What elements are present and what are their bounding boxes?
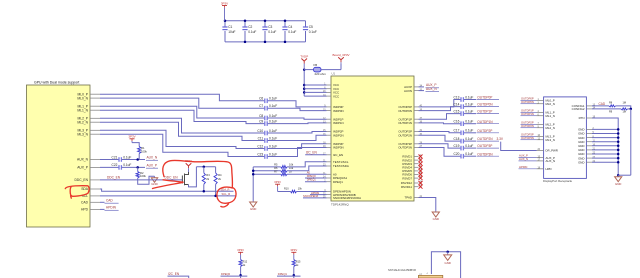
svg-text:C20: C20	[454, 152, 460, 156]
svg-text:DPEQ0: DPEQ0	[307, 174, 317, 178]
svg-text:C14: C14	[454, 102, 460, 106]
svg-text:SDA: SDA	[81, 187, 89, 191]
svg-text:TDP142RNQ: TDP142RNQ	[331, 203, 349, 207]
svg-text:0.1uF: 0.1uF	[269, 114, 277, 118]
svg-text:R3: R3	[206, 173, 210, 177]
svg-text:0.1uF: 0.1uF	[465, 95, 473, 99]
svg-text:OUTDP2N: OUTDP2N	[521, 124, 534, 128]
svg-text:OUTDP2N: OUTDP2N	[398, 133, 412, 137]
svg-text:RTN: RTN	[579, 116, 585, 120]
svg-text:0.1uF: 0.1uF	[465, 152, 473, 156]
svg-text:C7: C7	[259, 104, 263, 108]
svg-text:C23: C23	[257, 152, 263, 156]
svg-text:CONFIG2: CONFIG2	[572, 107, 585, 111]
svg-text:HPD: HPD	[546, 167, 552, 171]
svg-text:C22: C22	[112, 163, 118, 167]
svg-text:R5: R5	[274, 162, 278, 166]
svg-text:C11: C11	[258, 136, 264, 140]
svg-text:AUX_N: AUX_N	[546, 159, 556, 163]
svg-text:OUTDP0N: OUTDP0N	[398, 109, 412, 113]
svg-text:CAD: CAD	[106, 198, 113, 202]
svg-text:0.1uF: 0.1uF	[123, 155, 131, 159]
svg-text:TPAD: TPAD	[405, 196, 413, 200]
svg-text:Board_3P3V: Board_3P3V	[332, 53, 349, 57]
svg-text:C6: C6	[259, 97, 263, 101]
svg-text:0.1uF: 0.1uF	[269, 144, 277, 148]
svg-text:C15: C15	[454, 109, 460, 113]
svg-text:3P3V: 3P3V	[290, 248, 297, 252]
svg-text:C1: C1	[228, 25, 232, 29]
svg-text:ML3_N: ML3_N	[546, 138, 555, 142]
svg-text:OUTDP1N: OUTDP1N	[398, 121, 412, 125]
svg-text:0.1uF: 0.1uF	[465, 109, 473, 113]
svg-text:C12: C12	[257, 144, 263, 148]
svg-text:GND: GND	[444, 261, 450, 265]
svg-text:DDC_EN: DDC_EN	[74, 178, 88, 182]
svg-text:OUTDP3N: OUTDP3N	[477, 152, 493, 156]
svg-text:C17: C17	[454, 129, 460, 133]
svg-text:C21: C21	[112, 155, 118, 159]
svg-text:3P3V: 3P3V	[221, 1, 228, 5]
svg-text:ML3_N: ML3_N	[77, 132, 88, 136]
svg-text:RSVD7: RSVD7	[402, 176, 412, 180]
svg-text:C8: C8	[259, 114, 263, 118]
svg-text:3P3V: 3P3V	[274, 180, 281, 184]
svg-text:SNOOPENZ: SNOOPENZ	[303, 194, 318, 198]
svg-text:C19: C19	[454, 144, 460, 148]
svg-text:100k: 100k	[141, 149, 147, 153]
svg-text:0.1uF: 0.1uF	[465, 120, 473, 124]
svg-text:0.1uF: 0.1uF	[269, 152, 277, 156]
svg-text:DDC_EN: DDC_EN	[107, 176, 121, 180]
svg-text:GND: GND	[433, 217, 439, 221]
svg-text:C10: C10	[257, 129, 263, 133]
svg-text:1M: 1M	[623, 110, 626, 113]
svg-text:R6: R6	[274, 166, 278, 170]
svg-text:INDP1N: INDP1N	[333, 121, 344, 125]
svg-text:GND: GND	[578, 160, 584, 164]
svg-text:0.1uF: 0.1uF	[288, 30, 296, 34]
svg-text:HPDIN: HPDIN	[106, 206, 117, 210]
svg-text:OUTDP2P: OUTDP2P	[477, 129, 492, 133]
svg-text:0.1uF: 0.1uF	[123, 163, 131, 167]
svg-text:VCC: VCC	[333, 94, 339, 98]
svg-text:0.1uF: 0.1uF	[309, 30, 317, 34]
svg-text:TEST2/SDA: TEST2/SDA	[333, 164, 349, 168]
svg-text:ML0_N: ML0_N	[546, 102, 555, 106]
svg-text:GND: GND	[151, 182, 157, 186]
svg-text:DPEQ1: DPEQ1	[333, 180, 343, 184]
svg-text:SCL_R: SCL_R	[222, 192, 231, 196]
svg-text:OUTDP1N: OUTDP1N	[521, 112, 534, 116]
svg-text:ML1_N: ML1_N	[77, 108, 88, 112]
svg-text:ML2_N: ML2_N	[77, 120, 88, 124]
svg-text:RSVD11: RSVD11	[401, 185, 412, 189]
svg-text:OUTDP0N: OUTDP0N	[477, 103, 493, 107]
svg-text:C18: C18	[454, 137, 460, 141]
svg-text:I2C_EN: I2C_EN	[333, 153, 343, 157]
svg-text:DisplayPort Receptacle: DisplayPort Receptacle	[543, 179, 573, 183]
svg-text:INDP3N: INDP3N	[333, 146, 344, 150]
svg-text:DPEQ1: DPEQ1	[278, 272, 288, 276]
svg-text:A0: A0	[307, 170, 311, 174]
svg-text:HPDIN: HPDIN	[311, 191, 319, 195]
svg-text:0.1uF: 0.1uF	[465, 129, 473, 133]
svg-text:GND: GND	[250, 207, 256, 211]
svg-text:OUTDP0P: OUTDP0P	[477, 96, 492, 100]
svg-text:OUTDP3N: OUTDP3N	[398, 146, 412, 150]
svg-text:I2C_EN: I2C_EN	[168, 272, 180, 276]
svg-text:0.1uF: 0.1uF	[465, 137, 473, 141]
svg-text:DPEQ0: DPEQ0	[221, 272, 231, 276]
svg-text:INDP0N: INDP0N	[333, 109, 344, 113]
svg-text:10k: 10k	[289, 162, 294, 166]
svg-text:DPEQ1: DPEQ1	[307, 178, 317, 182]
svg-text:C3: C3	[268, 25, 272, 29]
svg-text:HPDIN: HPDIN	[519, 165, 527, 169]
svg-text:CAD: CAD	[599, 102, 606, 106]
svg-text:0.1uF: 0.1uF	[269, 136, 277, 140]
svg-text:0.1uF: 0.1uF	[268, 30, 276, 34]
svg-text:C13: C13	[454, 95, 460, 99]
svg-text:3P3V: 3P3V	[128, 135, 135, 139]
svg-text:GND: GND	[615, 182, 621, 186]
svg-text:DP_PWR: DP_PWR	[546, 149, 558, 153]
svg-text:10uF: 10uF	[228, 30, 235, 34]
svg-text:GPU with Dual mode support: GPU with Dual mode support	[34, 80, 79, 84]
svg-text:AUX_N: AUX_N	[147, 156, 158, 160]
svg-text:3.3V: 3.3V	[497, 137, 504, 141]
svg-text:0.1uF: 0.1uF	[465, 144, 473, 148]
svg-text:AUX_N: AUX_N	[426, 87, 437, 91]
svg-text:AUX_N: AUX_N	[77, 158, 89, 162]
svg-text:ML2_N: ML2_N	[546, 126, 555, 130]
svg-text:INDP2N: INDP2N	[333, 133, 344, 137]
svg-text:ML0_N: ML0_N	[77, 96, 88, 100]
svg-text:C16: C16	[454, 120, 460, 124]
svg-text:0.1uF: 0.1uF	[269, 97, 277, 101]
svg-text:SN74AHC1G125DBVR: SN74AHC1G125DBVR	[388, 268, 416, 272]
svg-text:SNOOPEN/RSVD/DA: SNOOPEN/RSVD/DA	[333, 196, 361, 200]
svg-text:FB: FB	[314, 63, 318, 67]
svg-text:3P3V: 3P3V	[237, 248, 244, 252]
svg-text:HPD: HPD	[81, 208, 89, 212]
svg-text:C4: C4	[288, 25, 292, 29]
svg-text:0.1uF: 0.1uF	[465, 102, 473, 106]
svg-text:AUX_N: AUX_N	[519, 157, 528, 161]
svg-text:OUTDP3P: OUTDP3P	[477, 144, 492, 148]
svg-text:U1: U1	[332, 72, 336, 76]
svg-text:OUTDP0N: OUTDP0N	[521, 100, 534, 104]
svg-text:OUTDP1P: OUTDP1P	[477, 110, 492, 114]
svg-text:1M: 1M	[623, 101, 626, 104]
svg-text:TVDP: TVDP	[300, 54, 308, 58]
svg-text:100k: 100k	[140, 174, 146, 178]
svg-text:AUX_P: AUX_P	[77, 166, 89, 170]
svg-text:C9: C9	[259, 119, 263, 123]
svg-text:0.1uF: 0.1uF	[248, 30, 256, 34]
svg-text:AUX_P: AUX_P	[147, 164, 157, 168]
svg-text:0.1uF: 0.1uF	[269, 119, 277, 123]
svg-text:ML1_N: ML1_N	[546, 114, 555, 118]
svg-text:0.1uF: 0.1uF	[269, 129, 277, 133]
svg-text:220 ohm: 220 ohm	[315, 72, 327, 76]
svg-text:R4: R4	[218, 173, 222, 177]
svg-text:DDC_EN: DDC_EN	[165, 176, 179, 180]
svg-text:OUTDP2N: OUTDP2N	[477, 137, 493, 141]
svg-text:C2: C2	[248, 25, 252, 29]
svg-text:0.1uF: 0.1uF	[269, 104, 277, 108]
svg-text:AUXN: AUXN	[404, 89, 412, 93]
svg-text:OUTDP3N: OUTDP3N	[521, 136, 534, 140]
svg-text:R10: R10	[284, 188, 289, 191]
svg-text:OUTDP1N: OUTDP1N	[477, 120, 493, 124]
svg-text:R7: R7	[274, 170, 278, 174]
svg-text:CAD: CAD	[81, 201, 89, 205]
svg-text:I2C_EN: I2C_EN	[306, 151, 318, 155]
svg-text:C5: C5	[309, 25, 313, 29]
